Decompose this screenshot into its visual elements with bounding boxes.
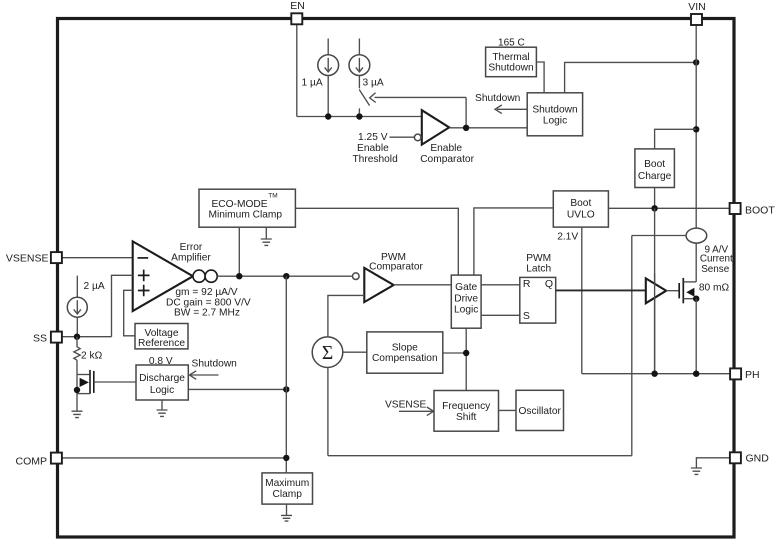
wire driver to power FET gate — [666, 290, 679, 292]
svg-text:Logic: Logic — [543, 116, 567, 127]
op-amp U2 error amplifier — [133, 241, 193, 311]
maximum clamp box — [262, 473, 313, 504]
svg-text:Minimum Clamp: Minimum Clamp — [209, 209, 283, 220]
node Q1 source junction — [74, 387, 80, 393]
svg-text:Compensation: Compensation — [372, 353, 438, 364]
svg-text:Shutdown: Shutdown — [192, 358, 237, 369]
wire sense loop right riser — [631, 236, 633, 456]
svg-text:Comparator: Comparator — [369, 261, 423, 272]
wire slope compensation to riser — [443, 352, 466, 354]
svg-text:Slope: Slope — [392, 342, 418, 353]
resistor R1 2k — [74, 337, 80, 361]
shutdown arrow to switch — [370, 93, 466, 103]
current source I1 stub — [327, 39, 329, 55]
svg-text:Discharge: Discharge — [139, 373, 185, 384]
wire boot UVLO bottom to PH wire — [581, 227, 583, 374]
wire boot charge to boot bus — [654, 188, 656, 209]
svg-text:VSENSE: VSENSE — [385, 399, 427, 410]
op-amp U1 enable comparator — [414, 110, 449, 144]
svg-text:Maximum: Maximum — [265, 478, 309, 489]
current source I3 2uA — [67, 297, 87, 317]
svg-text:2.1V: 2.1V — [557, 232, 578, 243]
shutdown output arrow — [495, 105, 527, 114]
node EN bus junction 1 — [325, 113, 331, 119]
wire comparator output to shutdown logic — [449, 127, 527, 129]
svg-text:R: R — [523, 278, 531, 290]
svg-text:BW = 2.7 MHz: BW = 2.7 MHz — [174, 308, 240, 319]
svg-text:gm = 92 µA/V: gm = 92 µA/V — [175, 287, 237, 298]
wire sense loop bottom — [328, 455, 632, 457]
frequency shift box — [434, 391, 499, 432]
svg-text:TM: TM — [268, 193, 277, 200]
wire GND pin to ground — [696, 458, 730, 468]
node PH junction 1 — [651, 371, 657, 377]
pin BOOT — [730, 203, 741, 214]
node PH junction 2 — [693, 371, 699, 377]
wire sense loop to current sense ellipse — [632, 235, 686, 237]
svg-text:Threshold: Threshold — [352, 154, 398, 165]
svg-text:Shutdown: Shutdown — [532, 105, 577, 116]
wire latch Q to driver — [556, 289, 646, 291]
svg-text:Boot: Boot — [570, 198, 591, 209]
node EN bus junction 2 — [356, 113, 362, 119]
wire SS riser to EA plus input — [112, 275, 133, 336]
svg-text:Drive: Drive — [454, 293, 478, 304]
PWM latch box — [520, 277, 556, 323]
node EA output junction 1 — [236, 273, 242, 279]
wire boot bus to BOOT pin — [608, 207, 730, 209]
pin PH — [730, 368, 741, 379]
node boot charge junction — [693, 126, 699, 132]
transistor Q2 power FET — [679, 278, 696, 303]
svg-text:EN: EN — [290, 0, 305, 12]
wire boot line through driver (redraw over fill) — [654, 273, 656, 374]
ground near GND pin — [691, 468, 702, 474]
current source I3 2uA stub — [76, 276, 78, 298]
wire VIN pin down to current sense — [695, 25, 697, 229]
svg-text:Error: Error — [180, 242, 203, 253]
svg-text:Frequency: Frequency — [442, 401, 491, 412]
svg-text:1.25 V: 1.25 V — [358, 132, 388, 143]
svg-text:80 mΩ: 80 mΩ — [699, 282, 730, 293]
svg-text:2 µA: 2 µA — [84, 281, 105, 292]
switch bottom contact — [358, 108, 360, 113]
wire FET source down to PH — [695, 299, 697, 374]
current source I2 stub — [358, 39, 360, 55]
wire SS pin to plus input riser — [62, 336, 112, 338]
svg-text:Comparator: Comparator — [420, 154, 474, 165]
node boot junction — [651, 205, 657, 211]
wire ECO-MODE right to gate drive — [295, 208, 458, 275]
summing node sigma — [312, 337, 343, 368]
wire sigma to slope compensation — [343, 351, 367, 353]
svg-text:Current: Current — [700, 254, 733, 265]
wire PH bus — [582, 373, 730, 375]
wire COMP pin to net — [62, 457, 286, 459]
op-amp U3 PWM comparator — [353, 268, 394, 302]
svg-text:S: S — [523, 310, 530, 322]
node discharge junction — [283, 386, 289, 392]
wire EN bus — [297, 116, 422, 118]
current source I1 1uA — [318, 55, 339, 76]
current source I2 3uA — [349, 55, 370, 76]
svg-text:Oscillator: Oscillator — [518, 406, 561, 417]
wire frequency shift to oscillator — [499, 409, 517, 411]
svg-text:ECO-MODE: ECO-MODE — [211, 199, 267, 210]
svg-text:1 µA: 1 µA — [302, 78, 323, 89]
wire EN pin down to bus — [296, 24, 298, 116]
wire gate drive to latch R — [481, 284, 520, 286]
svg-text:3 µA: 3 µA — [363, 78, 384, 89]
svg-text:Gate: Gate — [455, 282, 477, 293]
svg-text:Q: Q — [545, 278, 553, 290]
voltage reference box — [135, 324, 188, 349]
svg-text:Enable: Enable — [357, 143, 389, 154]
wire boot UVLO left to gate drive — [474, 208, 553, 275]
wire COMP net vertical — [285, 276, 287, 473]
svg-text:Logic: Logic — [454, 305, 478, 316]
wire threshold to bubble — [390, 136, 415, 138]
svg-text:PWM: PWM — [526, 253, 551, 264]
svg-text:Shutdown: Shutdown — [488, 62, 533, 73]
driver buffer triangle — [646, 278, 666, 303]
svg-text:Thermal: Thermal — [492, 52, 529, 63]
switch blade — [359, 90, 369, 106]
transistor Q1 discharge FET — [77, 360, 94, 411]
svg-text:Latch: Latch — [526, 263, 551, 274]
node EA output junction 2 — [283, 273, 289, 279]
gate drive logic box — [451, 275, 481, 328]
svg-text:Σ: Σ — [322, 343, 333, 364]
svg-text:Enable: Enable — [430, 143, 462, 154]
shutdown logic box — [527, 93, 582, 136]
node VIN sense junction — [693, 59, 699, 65]
wire discharge logic to COMP net — [188, 388, 286, 390]
wire thermal shutdown to shutdown logic — [536, 62, 544, 93]
pin GND — [730, 452, 741, 463]
pin EN — [291, 13, 302, 24]
svg-text:Amplifier: Amplifier — [171, 253, 211, 264]
pin SS — [51, 332, 62, 343]
wire gate drive down to frequency shift — [465, 328, 467, 390]
boot charge box — [635, 149, 675, 188]
boot UVLO box — [553, 191, 608, 227]
wire VIN to boot charge — [655, 129, 697, 149]
ground below Q1 — [72, 411, 83, 417]
svg-text:BOOT: BOOT — [745, 205, 775, 217]
wire shutdown logic to VIN line — [565, 62, 697, 92]
svg-text:Clamp: Clamp — [272, 489, 302, 500]
arrow shutdown into discharge logic — [189, 371, 218, 380]
wire I2 bottom stub — [358, 76, 360, 89]
wire comparator output to shutdown arrow — [465, 97, 467, 127]
svg-text:Charge: Charge — [638, 171, 672, 182]
wire Q1 gate to discharge logic — [94, 381, 136, 383]
pin VIN — [691, 14, 702, 25]
svg-text:VSENSE: VSENSE — [6, 253, 49, 265]
svg-text:Sense: Sense — [701, 264, 730, 275]
node SS junction — [74, 334, 80, 340]
node COMP junction — [283, 455, 289, 461]
ground below maximum clamp — [281, 504, 292, 521]
pin VSENSE — [51, 252, 62, 263]
ground below ECO-MODE — [261, 227, 272, 245]
svg-text:GND: GND — [746, 453, 770, 465]
svg-text:SS: SS — [33, 333, 47, 345]
arrow VSENSE into frequency shift — [399, 407, 434, 416]
slope compensation box — [367, 332, 443, 373]
svg-text:VIN: VIN — [688, 1, 706, 13]
svg-text:Logic: Logic — [150, 385, 174, 396]
discharge logic box — [136, 365, 188, 400]
wire vref to EA plus input — [124, 290, 135, 336]
oscillator box — [516, 390, 564, 430]
wire I1 to bus — [327, 76, 329, 117]
error amp output stage circles — [193, 270, 217, 282]
svg-text:Boot: Boot — [644, 159, 665, 170]
wire current sense to FET drain — [695, 243, 697, 282]
wire sigma down to sense loop — [327, 368, 329, 456]
svg-text:UVLO: UVLO — [567, 209, 595, 220]
svg-text:PH: PH — [745, 369, 760, 381]
wire VSENSE pin to error amp — [62, 257, 133, 259]
svg-text:COMP: COMP — [16, 456, 48, 468]
svg-text:Shift: Shift — [456, 412, 477, 423]
wire I3 to SS node — [76, 317, 78, 337]
wire gate drive to latch S — [481, 314, 520, 316]
pin COMP — [51, 453, 62, 464]
node power FET source — [693, 296, 699, 302]
node comparator output — [463, 125, 469, 131]
wire sigma to PWM comparator plus input — [328, 295, 364, 337]
svg-text:2 kΩ: 2 kΩ — [81, 350, 103, 361]
current sense ellipse — [686, 228, 707, 243]
ECO-MODE minimum clamp box — [199, 189, 295, 227]
wire boot down through driver to PH — [654, 208, 656, 373]
svg-text:Reference: Reference — [138, 338, 185, 349]
node slope junction — [463, 350, 469, 356]
wire EA output line to PWM comparator — [217, 275, 352, 277]
wire PWM comparator output to gate drive — [394, 284, 452, 286]
svg-text:Shutdown: Shutdown — [475, 93, 520, 104]
ground below discharge logic — [157, 400, 168, 416]
wire ECO-MODE down to EA output — [238, 227, 240, 276]
thermal shutdown box — [486, 47, 537, 76]
